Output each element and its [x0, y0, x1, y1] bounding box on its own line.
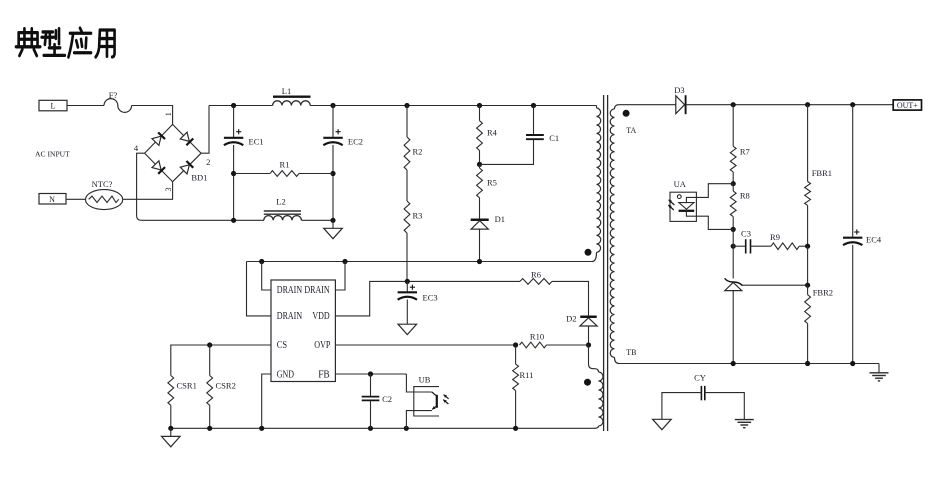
- svg-text:FB: FB: [318, 369, 330, 380]
- node: [207, 342, 212, 347]
- svg-text:R9: R9: [770, 232, 780, 242]
- resistor CSR1: [168, 376, 197, 429]
- svg-text:R1: R1: [280, 160, 290, 170]
- label TB: [626, 348, 636, 357]
- svg-text:DRAIN: DRAIN: [304, 285, 329, 296]
- wire: [732, 291, 734, 364]
- wire: [686, 104, 894, 106]
- diode D3: [674, 85, 685, 114]
- wire: [406, 170, 408, 201]
- resistor R5: [477, 164, 497, 197]
- secondary polarity dot: [623, 110, 630, 117]
- node: [330, 218, 335, 223]
- node: [405, 279, 410, 284]
- node: [330, 171, 335, 176]
- svg-text:DRAIN: DRAIN: [277, 311, 302, 322]
- wire: [335, 373, 406, 375]
- svg-text:N: N: [49, 195, 55, 204]
- resistor R1: [234, 160, 333, 177]
- node: [850, 102, 855, 107]
- wire: [705, 393, 745, 420]
- shunt regulator TL431: [725, 278, 743, 290]
- resistor R2: [404, 106, 422, 171]
- wire: [247, 261, 593, 263]
- node: [805, 361, 810, 366]
- node: [259, 259, 264, 264]
- svg-text:3: 3: [164, 188, 173, 192]
- auxiliary winding: [594, 369, 603, 429]
- svg-text:F?: F?: [109, 90, 118, 100]
- wire: [262, 262, 271, 291]
- optocoupler UA: [670, 179, 696, 221]
- wire: [479, 150, 481, 164]
- svg-text:UA: UA: [674, 179, 687, 189]
- terminal N: [39, 194, 66, 205]
- earth ground: [735, 420, 754, 428]
- wire: [233, 106, 235, 138]
- fuse F?: [104, 90, 132, 112]
- svg-text:OUT+: OUT+: [897, 101, 918, 110]
- ground: [324, 228, 343, 238]
- node: [531, 103, 536, 108]
- wire: [406, 233, 408, 281]
- capacitor CY: [694, 372, 706, 400]
- svg-text:UB: UB: [419, 374, 431, 384]
- wire: [807, 246, 809, 285]
- capacitor EC1: [224, 129, 264, 146]
- node: [731, 102, 736, 107]
- svg-text:R8: R8: [740, 191, 750, 201]
- node: [259, 426, 264, 431]
- wire: [335, 262, 345, 291]
- node: [731, 181, 736, 186]
- node: [477, 259, 482, 264]
- node: [805, 102, 810, 107]
- svg-text:C2: C2: [382, 394, 392, 404]
- wire: [406, 411, 432, 429]
- wire: [332, 145, 334, 220]
- resistor R11: [513, 345, 534, 428]
- svg-text:FBR2: FBR2: [813, 288, 833, 298]
- node: [342, 259, 347, 264]
- node: [368, 371, 373, 376]
- wire: [480, 139, 534, 164]
- terminal L: [39, 100, 67, 111]
- earth ground: [870, 373, 889, 381]
- label AC INPUT: [35, 150, 70, 159]
- svg-text:R7: R7: [740, 147, 750, 157]
- wire: [141, 219, 264, 221]
- wire: [552, 281, 589, 315]
- wire: [123, 182, 173, 200]
- svg-text:D1: D1: [495, 214, 505, 224]
- svg-text:BD1: BD1: [191, 172, 207, 182]
- wire: [67, 105, 104, 107]
- transformer primary winding: [592, 106, 601, 262]
- svg-text:L2: L2: [276, 197, 285, 207]
- svg-text:NTC?: NTC?: [92, 179, 113, 189]
- wire: [662, 393, 702, 420]
- secondary winding TA: [610, 105, 619, 364]
- controller IC U1: [271, 280, 335, 382]
- svg-text:EC4: EC4: [866, 235, 882, 245]
- svg-text:DRAIN: DRAIN: [277, 285, 302, 296]
- node: [513, 342, 518, 347]
- wire: [137, 153, 145, 220]
- svg-text:L1: L1: [282, 86, 291, 96]
- wire: [132, 106, 173, 125]
- wire: [732, 229, 734, 246]
- resistor R6: [520, 270, 552, 285]
- resistor FBR1: [805, 105, 832, 247]
- resistor R8: [730, 184, 750, 230]
- title text: [16, 28, 115, 57]
- optocoupler UB: [414, 374, 439, 416]
- resistor R3: [404, 201, 422, 233]
- wire: [696, 216, 733, 229]
- svg-text:GND: GND: [277, 369, 294, 380]
- node: [805, 283, 810, 288]
- transformer core: [604, 95, 608, 431]
- wire: [406, 300, 408, 325]
- inductor L2: [264, 197, 302, 221]
- resistor R9: [751, 232, 808, 250]
- ground: [653, 419, 672, 429]
- node: [805, 244, 810, 249]
- capacitor C1: [526, 133, 559, 143]
- wire: [262, 374, 271, 428]
- svg-text:L: L: [51, 102, 56, 111]
- ground: [162, 436, 181, 446]
- node: [477, 162, 482, 167]
- bridge rectifier BD1: [134, 112, 211, 191]
- resistor FBR2: [805, 285, 833, 363]
- wire: [301, 219, 333, 221]
- svg-text:R2: R2: [413, 147, 423, 157]
- wire: [619, 363, 879, 365]
- wire: [66, 198, 86, 200]
- capacitor C2: [362, 374, 392, 428]
- node: [404, 426, 409, 431]
- label TA: [626, 126, 636, 135]
- wire: [247, 262, 272, 316]
- svg-text:CSR2: CSR2: [216, 381, 236, 391]
- wire: [696, 184, 733, 198]
- svg-text:C1: C1: [549, 133, 559, 143]
- capacitor C3: [733, 229, 751, 254]
- svg-text:R10: R10: [530, 332, 544, 342]
- diode D2: [566, 314, 597, 327]
- node: [231, 171, 236, 176]
- inductor L1: [273, 86, 311, 106]
- diode D1: [471, 214, 505, 229]
- wire: [406, 374, 431, 392]
- svg-text:1: 1: [164, 112, 173, 116]
- node: [850, 361, 855, 366]
- wire: [332, 106, 334, 138]
- node: [586, 342, 591, 347]
- svg-text:CY: CY: [694, 372, 706, 382]
- node: [207, 426, 212, 431]
- svg-text:EC2: EC2: [348, 137, 363, 147]
- node: [231, 103, 236, 108]
- auxiliary polarity dot: [584, 379, 591, 386]
- wire: [589, 345, 595, 369]
- wire: [619, 104, 676, 106]
- svg-text:FBR1: FBR1: [812, 168, 832, 178]
- svg-text:R5: R5: [487, 178, 497, 188]
- wire: [732, 246, 734, 278]
- resistor R4: [477, 106, 498, 151]
- terminal OUT+: [893, 100, 921, 110]
- wire: [335, 281, 520, 316]
- wire: [201, 106, 209, 154]
- resistor R10: [520, 332, 589, 348]
- node: [731, 361, 736, 366]
- node: [231, 218, 236, 223]
- wire: [479, 229, 481, 261]
- wire: [878, 364, 880, 373]
- node: [731, 244, 736, 249]
- svg-text:CS: CS: [277, 340, 287, 351]
- ground: [398, 324, 417, 334]
- svg-text:CSR1: CSR1: [177, 381, 197, 391]
- svg-text:VDD: VDD: [312, 311, 329, 322]
- node: [168, 426, 173, 431]
- wire: [852, 245, 854, 364]
- svg-text:EC3: EC3: [423, 293, 438, 303]
- resistor R7: [730, 105, 750, 184]
- wire: [479, 198, 481, 220]
- wire: [588, 326, 590, 345]
- svg-text:OVP: OVP: [314, 340, 330, 351]
- wire: [171, 427, 594, 429]
- node: [368, 426, 373, 431]
- resistor CSR2: [207, 345, 236, 428]
- node: [513, 426, 518, 431]
- node: [477, 103, 482, 108]
- capacitor EC4: [843, 105, 882, 245]
- wire: [233, 145, 235, 220]
- capacitor EC3: [398, 281, 438, 302]
- capacitor EC2: [323, 129, 363, 146]
- svg-text:TA: TA: [626, 126, 636, 135]
- light arrows: [668, 200, 674, 210]
- node: [404, 103, 409, 108]
- wire: [533, 106, 535, 136]
- svg-text:2: 2: [206, 157, 210, 167]
- svg-text:AC INPUT: AC INPUT: [35, 150, 70, 159]
- wire: [170, 428, 172, 436]
- svg-text:C3: C3: [741, 229, 751, 239]
- svg-text:R11: R11: [520, 370, 534, 380]
- light arrows: [443, 395, 448, 404]
- svg-text:R3: R3: [413, 211, 423, 221]
- node: [731, 227, 736, 232]
- wire: [335, 344, 515, 346]
- node: [330, 103, 335, 108]
- svg-text:D2: D2: [566, 314, 576, 324]
- svg-text:D3: D3: [674, 85, 684, 95]
- wire: [310, 105, 596, 107]
- svg-text:R6: R6: [531, 270, 541, 280]
- wire: [742, 284, 808, 286]
- svg-text:TB: TB: [626, 348, 636, 357]
- wire: [171, 345, 271, 376]
- wire: [332, 220, 334, 228]
- svg-text:R4: R4: [487, 128, 498, 138]
- thermistor NTC?: [86, 179, 123, 209]
- primary polarity dot: [585, 249, 592, 256]
- svg-text:EC1: EC1: [249, 137, 264, 147]
- wire: [209, 105, 273, 107]
